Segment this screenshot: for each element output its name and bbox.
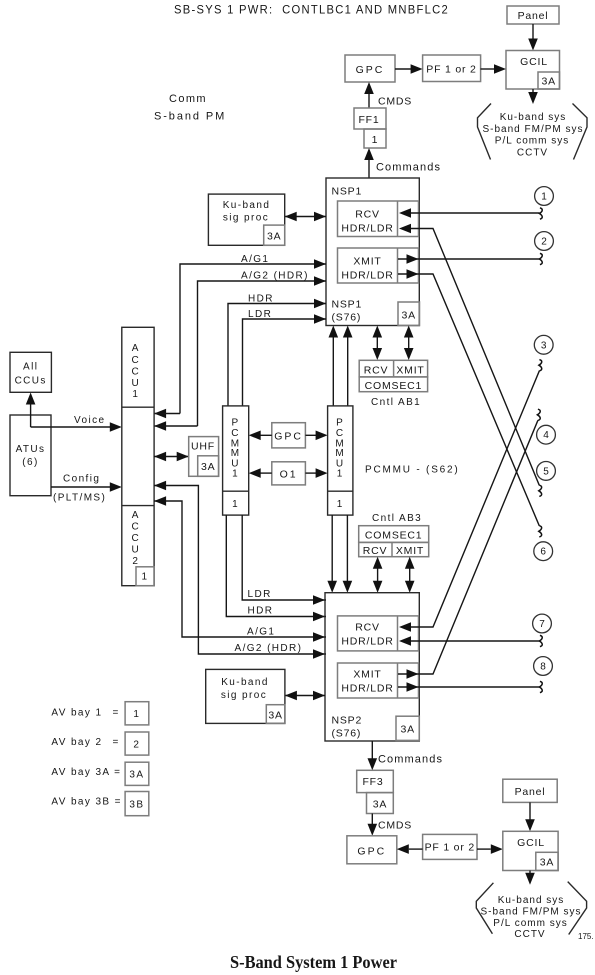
svg-text:1: 1 [142,572,149,583]
svg-text:8: 8 [540,662,546,673]
svg-text:Config: Config [63,474,100,485]
svg-text:HDR/LDR: HDR/LDR [341,223,393,235]
svg-text:C: C [336,428,345,439]
svg-text:GPC: GPC [356,64,385,76]
svg-text:3A: 3A [400,724,414,736]
svg-text:AV bay 1: AV bay 1 [51,708,102,719]
svg-text:=: = [113,708,120,719]
svg-text:Commands: Commands [376,162,441,174]
svg-text:1: 1 [133,709,140,720]
svg-text:A: A [132,343,140,354]
svg-text:HDR: HDR [248,606,274,617]
svg-text:CCTV: CCTV [514,929,545,940]
svg-text:Voice: Voice [74,415,105,426]
svg-text:A/G2 (HDR): A/G2 (HDR) [241,271,309,282]
svg-text:NSP2: NSP2 [332,715,363,727]
svg-text:XMIT: XMIT [353,669,381,681]
svg-text:1: 1 [541,192,547,203]
svg-text:C: C [131,522,140,533]
svg-text:S-band FM/PM sys: S-band FM/PM sys [482,124,583,135]
svg-text:LDR: LDR [248,589,272,600]
svg-text:3A: 3A [129,770,144,781]
svg-text:NSP1: NSP1 [332,186,363,198]
svg-text:M: M [335,448,345,459]
svg-text:AV bay 3A =: AV bay 3A = [51,767,121,778]
svg-text:FF1: FF1 [358,114,379,126]
svg-text:P: P [232,417,240,428]
svg-text:A/G1: A/G1 [241,254,269,265]
svg-text:Ku-band sys: Ku-band sys [500,112,567,123]
svg-text:(PLT/MS): (PLT/MS) [53,493,106,504]
svg-text:1: 1 [372,134,379,146]
svg-text:HDR/LDR: HDR/LDR [341,683,393,695]
svg-text:SB-SYS 1 PWR: CONTLBC1 AND MN: SB-SYS 1 PWR: CONTLBC1 AND MNBFLC2 [174,5,449,17]
svg-text:1: 1 [132,389,139,400]
svg-text:2: 2 [541,237,547,248]
svg-text:All: All [23,362,38,373]
svg-text:C: C [131,367,140,378]
svg-text:7: 7 [539,619,545,630]
svg-text:Cntl AB3: Cntl AB3 [372,513,422,524]
svg-text:U: U [131,378,140,389]
svg-text:HDR: HDR [248,294,274,305]
svg-text:Ku-band sys: Ku-band sys [498,895,565,906]
svg-text:NSP1: NSP1 [332,299,363,311]
svg-text:CMDS: CMDS [378,96,412,108]
svg-text:CCTV: CCTV [517,147,548,158]
svg-text:1: 1 [232,499,239,510]
svg-text:4: 4 [543,430,549,441]
svg-text:HDR/LDR: HDR/LDR [341,636,393,648]
svg-text:A: A [132,510,140,521]
svg-text:Panel: Panel [518,10,549,22]
svg-text:sig proc: sig proc [221,690,267,701]
svg-text:AV bay 3B =: AV bay 3B = [51,797,122,808]
svg-text:RCV: RCV [363,545,388,557]
svg-text:1: 1 [337,499,344,510]
svg-text:C: C [131,533,140,544]
svg-text:(6): (6) [22,457,38,468]
svg-text:GPC: GPC [357,846,386,858]
svg-text:LDR: LDR [248,309,272,320]
svg-text:AV bay 2: AV bay 2 [51,737,102,748]
svg-text:RCV: RCV [355,209,380,221]
svg-text:GCIL: GCIL [520,56,548,68]
svg-text:2: 2 [133,740,140,751]
svg-text:1: 1 [337,469,344,480]
svg-text:3: 3 [541,340,547,351]
svg-text:P/L comm sys: P/L comm sys [493,918,567,929]
svg-text:S-band PM: S-band PM [154,111,226,123]
svg-text:C: C [131,355,140,366]
svg-text:=: = [113,737,120,748]
svg-text:GCIL: GCIL [517,837,545,849]
svg-text:P/L comm sys: P/L comm sys [495,136,569,147]
svg-text:3A: 3A [268,710,282,722]
svg-text:5: 5 [543,466,549,477]
svg-text:1: 1 [232,469,239,480]
svg-text:XMIT: XMIT [353,256,381,268]
svg-text:COMSEC1: COMSEC1 [365,380,423,392]
svg-text:CMDS: CMDS [378,820,412,832]
svg-text:PF 1 or 2: PF 1 or 2 [425,842,475,854]
svg-text:(S76): (S76) [332,728,362,740]
svg-text:Panel: Panel [515,786,546,798]
svg-text:ATUs: ATUs [16,444,46,455]
svg-text:2: 2 [132,556,139,567]
svg-text:3B: 3B [129,800,144,811]
svg-text:3A: 3A [201,461,215,473]
svg-text:175.: 175. [578,932,594,941]
svg-text:P: P [336,417,344,428]
svg-text:(S76): (S76) [332,312,362,324]
svg-text:PCMMU - (S62): PCMMU - (S62) [365,465,460,476]
svg-text:S-band FM/PM sys: S-band FM/PM sys [480,907,581,918]
svg-text:Ku-band: Ku-band [221,677,269,688]
svg-text:FF3: FF3 [362,776,383,788]
svg-text:A/G2 (HDR): A/G2 (HDR) [235,643,303,654]
svg-text:Cntl AB1: Cntl AB1 [371,397,421,408]
svg-text:U: U [131,545,140,556]
svg-text:A/G1: A/G1 [247,627,275,638]
svg-text:Commands: Commands [378,754,443,766]
svg-text:3A: 3A [373,799,387,811]
svg-text:GPC: GPC [274,431,303,443]
svg-text:CCUs: CCUs [15,376,47,387]
svg-text:PF 1 or 2: PF 1 or 2 [426,64,476,76]
svg-text:UHF: UHF [191,441,215,453]
svg-text:M: M [231,448,241,459]
svg-text:HDR/LDR: HDR/LDR [341,270,393,282]
svg-text:RCV: RCV [355,622,380,634]
svg-text:RCV: RCV [364,365,389,377]
svg-text:Ku-band: Ku-band [223,200,271,211]
svg-text:3A: 3A [540,857,554,869]
svg-text:XMIT: XMIT [396,545,424,557]
svg-text:COMSEC1: COMSEC1 [365,530,423,542]
svg-text:O1: O1 [280,469,298,481]
svg-text:6: 6 [540,547,546,558]
svg-text:3A: 3A [267,231,281,243]
svg-text:Comm: Comm [169,93,207,105]
svg-text:C: C [231,428,240,439]
svg-text:3A: 3A [401,310,415,322]
svg-text:3A: 3A [541,76,555,88]
svg-text:S-Band System 1 Power: S-Band System 1 Power [230,952,397,972]
svg-text:sig proc: sig proc [223,213,269,224]
svg-text:XMIT: XMIT [396,365,424,377]
